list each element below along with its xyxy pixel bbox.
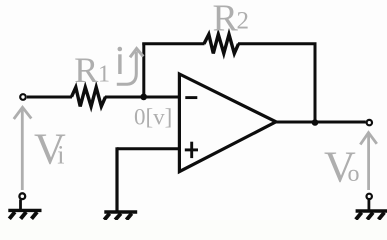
Vo bottom terminal (367, 194, 372, 199)
svg-text:i: i (57, 141, 64, 170)
ground (middle, below + input) (104, 212, 137, 220)
ground (bottom left) (8, 210, 41, 218)
wire: non-inverting input horizontal (117, 147, 179, 150)
wire: top feedback right segment (238, 42, 317, 45)
svg-text:0[v]: 0[v] (134, 105, 172, 130)
wire: non-inverting input vertical down (115, 147, 118, 210)
op-amp U1 triangle (179, 74, 276, 172)
ground (bottom right) (356, 211, 387, 220)
Vi bottom terminal (19, 193, 25, 199)
wire: input terminal to R1 (27, 96, 72, 99)
Vo reference arrow (360, 133, 377, 190)
node: junction of R1/R2/inverting input (140, 94, 147, 101)
wire: feedback left vertical (142, 43, 145, 98)
op-amp inverting pin (-) (185, 96, 197, 99)
wire: feedback right vertical (314, 43, 317, 123)
svg-text:1: 1 (98, 62, 110, 88)
Vi reference arrow (14, 107, 32, 190)
svg-text:2: 2 (237, 8, 250, 35)
resistor R2 (204, 34, 239, 53)
wire: top feedback left segment (142, 42, 204, 45)
wire: op-amp output (275, 121, 366, 124)
wire: R1 to op-amp inverting input (105, 96, 178, 99)
input terminal (Vi top) (20, 94, 26, 100)
svg-text:R: R (74, 50, 98, 90)
current arrow i (117, 49, 144, 85)
node: output junction (312, 119, 319, 126)
op-amp non-inverting pin (+) (185, 148, 198, 151)
label i (118, 47, 123, 74)
resistor R1 (72, 87, 106, 106)
svg-text:o: o (348, 161, 360, 187)
wire: Vo terminal to ground (367, 200, 370, 211)
svg-text:R: R (213, 0, 239, 40)
output terminal (Vo top) (367, 120, 372, 125)
wire: Vi terminal to ground (19, 200, 22, 211)
